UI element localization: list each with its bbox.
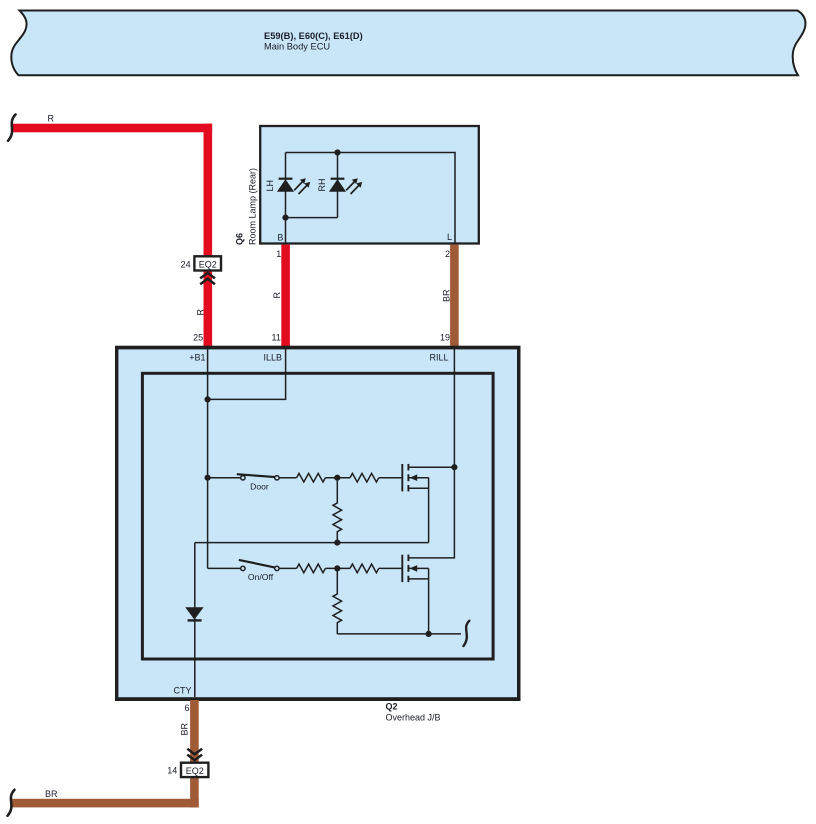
- LED LH: [277, 178, 310, 194]
- wire: Door to R1: [279, 477, 296, 479]
- transistor M2 (MOSFET lower): [402, 555, 428, 634]
- svg-text:6: 6: [184, 703, 189, 713]
- wire: brown horizontal to left edge: [12, 799, 199, 808]
- svg-text:Door: Door: [250, 481, 269, 491]
- svg-text:E59(B), E60(C), E61(D): E59(B), E60(C), E61(D): [264, 31, 363, 41]
- svg-text:24: 24: [181, 259, 191, 269]
- diode D1: [185, 607, 203, 620]
- node: +B1/ILLB junction: [205, 396, 211, 402]
- node: Door row junction: [205, 475, 211, 481]
- LED RH: [329, 178, 362, 194]
- svg-text:CTY: CTY: [174, 686, 192, 696]
- Overhead J/B box Q2: [115, 346, 521, 701]
- svg-text:1: 1: [276, 249, 281, 259]
- wire: red ILLB (pin 1 to pin 11): [281, 245, 290, 348]
- svg-text:L: L: [447, 232, 452, 242]
- wire: CTY branch down: [194, 543, 196, 697]
- resistor R6 (pull-down lower): [333, 568, 342, 634]
- resistor R5 (On/Off series 2): [350, 564, 379, 573]
- svg-text:Overhead J/B: Overhead J/B: [386, 712, 441, 722]
- svg-text:+B1: +B1: [189, 352, 205, 362]
- wire: R4 to R5: [325, 567, 350, 569]
- wire: brown RILL (pin 2 to pin 19): [450, 245, 459, 348]
- Main Body ECU banner: [11, 11, 805, 76]
- resistor R2 (Door series 2): [350, 473, 379, 482]
- node: M2 source junction: [426, 631, 432, 637]
- wire: source bus lower: [337, 633, 461, 635]
- wire: lamp top bus: [286, 153, 456, 245]
- svg-text:ILLB: ILLB: [263, 352, 282, 362]
- svg-text:RH: RH: [317, 179, 327, 192]
- wire: ILLB line down and left: [208, 347, 286, 399]
- resistor R3 (pull-down upper): [333, 478, 342, 543]
- wire break squiggle left (red wire): [8, 115, 16, 141]
- svg-text:19: 19: [440, 333, 450, 343]
- transistor M1 (MOSFET upper): [402, 464, 454, 543]
- svg-text:Q6: Q6: [235, 233, 245, 245]
- wire: M1 source bus to left: [195, 542, 429, 544]
- wire: LED RH branch: [337, 153, 339, 218]
- wire: On/Off to R4: [279, 567, 296, 569]
- svg-text:11: 11: [272, 333, 281, 343]
- svg-text:LH: LH: [265, 180, 275, 192]
- wire: LED bottom link: [286, 217, 338, 219]
- wire break squiggle (ground continuation): [464, 621, 470, 646]
- switch On/Off: [208, 560, 279, 571]
- svg-text:25: 25: [193, 333, 203, 343]
- chevron marker (up, below EQ2): [200, 273, 215, 284]
- switch Door: [208, 474, 279, 480]
- svg-text:Q2: Q2: [386, 702, 398, 712]
- svg-text:BR: BR: [180, 722, 190, 735]
- wire: red feed vertical to pin 25: [204, 124, 213, 348]
- chevron marker (down, above EQ2): [187, 749, 202, 760]
- svg-text:B: B: [277, 232, 283, 242]
- svg-text:R: R: [48, 113, 55, 123]
- wire: +B1 line down: [207, 347, 209, 568]
- connector EQ2 (pin 24): [194, 256, 221, 270]
- node: R4/R5 junction: [334, 565, 340, 571]
- connector EQ2 (pin 14): [181, 763, 208, 777]
- node: top bus junction: [334, 149, 340, 155]
- resistor R4 (On/Off series 1): [297, 564, 326, 573]
- svg-text:14: 14: [167, 765, 177, 775]
- wire break squiggle left (brown wire): [8, 790, 15, 816]
- svg-text:Room Lamp (Rear): Room Lamp (Rear): [248, 168, 258, 245]
- node: bottom link junction: [282, 215, 288, 221]
- svg-text:EQ2: EQ2: [199, 259, 217, 269]
- inner circuit box: [142, 373, 493, 659]
- wire: RILL line down: [408, 347, 454, 558]
- svg-text:R: R: [195, 309, 205, 316]
- svg-text:On/Off: On/Off: [248, 572, 274, 582]
- svg-text:RILL: RILL: [429, 352, 448, 362]
- resistor R1 (Door series 1): [297, 473, 326, 482]
- svg-text:BR: BR: [45, 789, 58, 799]
- svg-text:EQ2: EQ2: [186, 766, 204, 776]
- node: M1 drain to RILL: [451, 464, 457, 470]
- wire: R2 to Q-gate: [379, 477, 402, 479]
- node: R3 bottom junction: [334, 540, 340, 546]
- svg-text:Main Body ECU: Main Body ECU: [264, 42, 330, 52]
- svg-text:R: R: [272, 292, 282, 299]
- svg-text:BR: BR: [441, 289, 451, 302]
- node: R1/R2 junction: [334, 475, 340, 481]
- wire: R5 to M2 gate: [379, 567, 402, 569]
- wire: LED LH branch: [285, 153, 287, 245]
- wire: red feed horizontal from left edge: [12, 124, 212, 133]
- svg-text:2: 2: [445, 249, 450, 259]
- Room Lamp (Rear) box Q6: [260, 126, 479, 244]
- wire: brown CTY vertical: [190, 700, 199, 807]
- wire: R1 to R2: [325, 477, 350, 479]
